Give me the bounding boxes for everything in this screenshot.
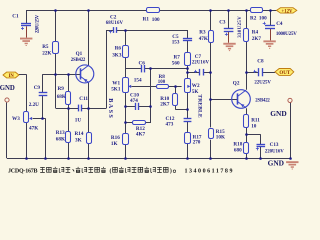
svg-text:C4: C4 xyxy=(276,21,283,27)
svg-text:474: 474 xyxy=(130,98,138,104)
svg-text:R4: R4 xyxy=(252,30,259,36)
svg-text:C11: C11 xyxy=(79,96,88,102)
svg-text:22K: 22K xyxy=(42,50,51,56)
svg-text:68K: 68K xyxy=(56,137,65,143)
svg-text:1U: 1U xyxy=(75,118,82,124)
svg-text:270: 270 xyxy=(193,140,201,146)
svg-text:R5: R5 xyxy=(42,44,49,50)
svg-text:680: 680 xyxy=(234,148,242,154)
svg-text:100: 100 xyxy=(259,16,267,22)
svg-text:153: 153 xyxy=(172,39,180,45)
svg-text:2K7: 2K7 xyxy=(160,102,170,108)
svg-text:R2: R2 xyxy=(250,15,257,21)
svg-text:560: 560 xyxy=(172,60,180,66)
svg-text:C13: C13 xyxy=(270,142,279,148)
svg-text:3K3: 3K3 xyxy=(112,52,122,58)
svg-text:2SB422: 2SB422 xyxy=(71,58,86,63)
svg-text:R6: R6 xyxy=(115,46,122,52)
svg-text:R13: R13 xyxy=(56,130,65,136)
svg-text:68K: 68K xyxy=(57,94,66,100)
svg-text:(: ( xyxy=(110,168,112,175)
svg-text:R9: R9 xyxy=(58,86,65,92)
svg-text:Q2: Q2 xyxy=(233,80,240,86)
svg-text:Q1: Q1 xyxy=(76,51,83,57)
svg-text:22U16V: 22U16V xyxy=(192,61,210,66)
svg-text:C1: C1 xyxy=(12,14,19,20)
svg-text:5K1: 5K1 xyxy=(111,86,121,92)
svg-text:R18: R18 xyxy=(233,142,242,148)
svg-text:22U25V: 22U25V xyxy=(254,81,271,86)
svg-text:330U25V: 330U25V xyxy=(238,16,243,38)
svg-text:1K: 1K xyxy=(111,141,118,147)
svg-text:3K: 3K xyxy=(75,137,82,143)
svg-text:220U/25V: 220U/25V xyxy=(36,14,41,33)
svg-text:GND: GND xyxy=(270,109,286,118)
svg-text:10: 10 xyxy=(251,124,257,130)
svg-text:C8: C8 xyxy=(257,58,264,64)
svg-text:47K: 47K xyxy=(29,125,38,131)
svg-text:2K7: 2K7 xyxy=(252,36,262,42)
svg-text:C9: C9 xyxy=(34,85,41,91)
svg-text:100: 100 xyxy=(152,17,160,23)
svg-text:C6: C6 xyxy=(139,61,146,67)
svg-text:R14: R14 xyxy=(75,131,84,137)
svg-text:13400611789: 13400611789 xyxy=(184,169,232,175)
svg-text:68U16V: 68U16V xyxy=(106,21,124,26)
svg-text:2SB422: 2SB422 xyxy=(255,99,270,104)
svg-text:): ) xyxy=(170,168,172,175)
svg-text:W3: W3 xyxy=(12,116,20,122)
svg-text:473: 473 xyxy=(166,122,174,128)
svg-text:2.2U: 2.2U xyxy=(29,102,39,108)
svg-text:C2: C2 xyxy=(110,15,117,21)
svg-text:220U16V: 220U16V xyxy=(265,150,284,155)
svg-text:C3: C3 xyxy=(219,19,226,25)
svg-text:47K: 47K xyxy=(199,36,208,42)
svg-text:R3: R3 xyxy=(199,30,206,36)
svg-text:IN: IN xyxy=(9,74,15,79)
svg-text:JCDQ-167B: JCDQ-167B xyxy=(8,169,38,175)
svg-text:GND: GND xyxy=(0,85,15,92)
svg-text:1000U25V: 1000U25V xyxy=(276,32,297,37)
svg-text:GND: GND xyxy=(268,158,284,167)
svg-text:R1: R1 xyxy=(143,17,150,23)
svg-text:C7: C7 xyxy=(195,54,202,60)
svg-text:TREBLE: TREBLE xyxy=(197,94,203,118)
svg-text:10K: 10K xyxy=(216,134,225,140)
svg-text:154: 154 xyxy=(134,77,142,83)
svg-text:4K7: 4K7 xyxy=(136,131,146,137)
svg-text:OUT: OUT xyxy=(279,71,291,76)
svg-text:+12V: +12V xyxy=(282,9,294,14)
svg-text:100: 100 xyxy=(158,80,166,85)
